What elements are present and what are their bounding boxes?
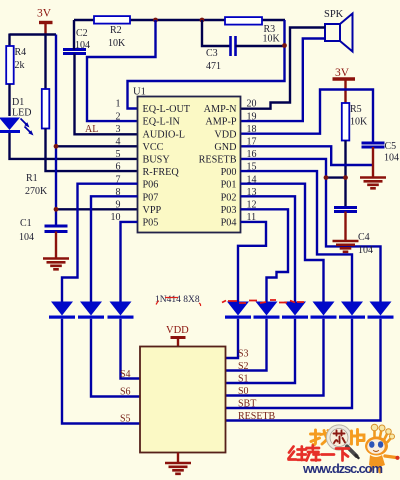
svg-text:P06: P06 bbox=[143, 180, 159, 191]
diode D4 (1N4148) bbox=[110, 302, 132, 316]
node junction VCC bbox=[54, 144, 59, 149]
svg-text:20: 20 bbox=[247, 99, 257, 110]
svg-text:P03: P03 bbox=[221, 205, 237, 216]
wire P01 pin 14 to diode D8 bbox=[241, 184, 324, 302]
svg-text:17: 17 bbox=[247, 137, 257, 148]
label C3 471 bbox=[206, 48, 221, 72]
svg-text:104: 104 bbox=[358, 245, 373, 256]
wire top rail y=20 bbox=[74, 19, 285, 21]
svg-text:R1: R1 bbox=[26, 173, 38, 184]
svg-text:VDD: VDD bbox=[166, 325, 189, 336]
svg-text:10: 10 bbox=[111, 212, 121, 223]
node junction C3 left bbox=[200, 18, 205, 23]
resistor R1 bbox=[42, 89, 50, 129]
wire R4 top lead bbox=[8, 34, 10, 47]
diode D8 (1N4148) bbox=[313, 302, 335, 316]
svg-text:SBT: SBT bbox=[238, 399, 256, 410]
svg-text:VCC: VCC bbox=[143, 142, 164, 153]
svg-text:www.dzsc.com: www.dzsc.com bbox=[302, 461, 383, 476]
svg-text:P02: P02 bbox=[221, 192, 237, 203]
wire diode D5 to S3 bbox=[226, 319, 239, 358]
label D1 LED bbox=[12, 97, 31, 119]
labels chip2 left pins S4 S6 S5 bbox=[120, 369, 131, 425]
svg-text:18: 18 bbox=[247, 124, 257, 135]
svg-text:P00: P00 bbox=[221, 167, 237, 178]
wire C3 right lead bbox=[236, 45, 285, 47]
svg-text:RESETB: RESETB bbox=[238, 411, 276, 422]
svg-text:S5: S5 bbox=[120, 414, 131, 425]
svg-text:1N414 8X8: 1N414 8X8 bbox=[155, 295, 200, 305]
svg-text:5: 5 bbox=[116, 149, 121, 160]
svg-text:VDD: VDD bbox=[214, 129, 236, 140]
wire 3V stem to R1 bbox=[44, 35, 46, 90]
label C1 104 bbox=[19, 218, 34, 243]
watermark logo dzsc (find-chip magnifier, mascot, brand) bbox=[289, 424, 400, 476]
capacitor C4 bbox=[334, 208, 357, 212]
label C4 104 bbox=[358, 232, 373, 256]
svg-text:AUDIO-L: AUDIO-L bbox=[143, 129, 185, 140]
svg-text:2: 2 bbox=[116, 111, 121, 122]
wire diode D6 to S2 bbox=[226, 319, 267, 371]
svg-text:C3: C3 bbox=[206, 48, 218, 59]
label R1 270K bbox=[25, 173, 48, 197]
svg-text:R5: R5 bbox=[350, 104, 362, 115]
wire GND pin 17 to C5 bottom bbox=[241, 146, 374, 165]
labels U1 pin numbers bbox=[111, 99, 257, 223]
svg-text:AL: AL bbox=[85, 124, 98, 135]
wire R1 to R-FREQ pin 6 bbox=[46, 129, 138, 172]
svg-text:S4: S4 bbox=[120, 369, 131, 380]
svg-text:19: 19 bbox=[247, 111, 257, 122]
ground under C4 bbox=[333, 241, 359, 252]
wire R4 to D1 bbox=[8, 84, 10, 116]
wire 3V rail top-left horizontal bbox=[10, 33, 57, 35]
wire VCC pin 4 bbox=[56, 145, 138, 147]
svg-text:SPK: SPK bbox=[324, 9, 344, 20]
svg-text:104: 104 bbox=[19, 232, 34, 243]
wire diode D10 to RESETB bbox=[226, 319, 381, 421]
wire P00 pin 15 to diode D9 bbox=[241, 171, 353, 301]
svg-text:EQ-L-OUT: EQ-L-OUT bbox=[143, 104, 191, 115]
labels chip2 right pins bbox=[238, 349, 276, 423]
wire R5 to C4 vertical bbox=[344, 141, 346, 208]
ground under C5 bbox=[360, 178, 386, 189]
svg-text:RESETB: RESETB bbox=[199, 155, 237, 166]
svg-text:S3: S3 bbox=[238, 349, 249, 360]
svg-text:C2: C2 bbox=[76, 28, 88, 39]
svg-text:471: 471 bbox=[206, 61, 221, 72]
label R3 10K bbox=[263, 24, 281, 45]
speaker SPK symbol bbox=[325, 14, 353, 52]
wire D1 cathode to BUSY pin 5 bbox=[10, 133, 138, 159]
wire P05 pin 10 to diode D4 bbox=[121, 222, 138, 302]
wire AMP-N pin 20 to SPK bbox=[241, 28, 326, 109]
wire 3V to VCC/VPP/C1 vertical bbox=[55, 35, 57, 226]
resistor R5 bbox=[342, 103, 350, 141]
wire P07 pin 8 to diode D3 bbox=[91, 196, 138, 301]
svg-text:P01: P01 bbox=[221, 180, 237, 191]
svg-text:C4: C4 bbox=[358, 232, 370, 243]
LED D1 bbox=[0, 118, 34, 136]
svg-text:R-FREQ: R-FREQ bbox=[143, 167, 180, 178]
node junction AMP-N/R3/C3 bbox=[282, 43, 287, 48]
diode D9 (1N4148) bbox=[341, 302, 363, 316]
wire C2 top lead bbox=[73, 20, 75, 50]
svg-text:9: 9 bbox=[116, 200, 121, 211]
wire diode D7 to S1 bbox=[226, 319, 296, 383]
capacitor C3 bbox=[231, 36, 236, 56]
chip U2 body bbox=[140, 347, 226, 453]
wire VDD pin 18 to 3V rail bbox=[241, 90, 374, 144]
svg-text:10K: 10K bbox=[263, 34, 281, 45]
svg-text:3: 3 bbox=[116, 124, 121, 135]
svg-text:R2: R2 bbox=[110, 25, 122, 36]
svg-text:10K: 10K bbox=[108, 38, 126, 49]
power VDD symbol (chip2) bbox=[166, 325, 189, 347]
wire R3/C3 right to EQ-L-OUT pin 1 bbox=[128, 20, 285, 109]
svg-text:S1: S1 bbox=[238, 374, 249, 385]
svg-text:3V: 3V bbox=[335, 67, 350, 79]
wire diode D3 to S6 bbox=[91, 319, 140, 397]
svg-text:P05: P05 bbox=[143, 218, 159, 229]
svg-text:S0: S0 bbox=[238, 386, 249, 397]
svg-text:LED: LED bbox=[12, 108, 31, 119]
svg-text:AMP-N: AMP-N bbox=[204, 104, 237, 115]
wire P03 pin 12 to diode D6 bbox=[241, 209, 289, 301]
label R4 2k bbox=[15, 47, 27, 71]
svg-text:104: 104 bbox=[75, 40, 90, 51]
wire P02 pin 13 to diode D7 bbox=[241, 196, 296, 301]
wire P04 pin 11 to diode D5 bbox=[238, 222, 266, 302]
diode D7 (1N4148) bbox=[284, 302, 306, 316]
wire C5 to ground bbox=[372, 147, 374, 177]
svg-text:P04: P04 bbox=[221, 218, 237, 229]
diode D2 (1N4148) bbox=[51, 302, 73, 316]
red markup strokes over diodes bbox=[222, 300, 304, 303]
svg-text:AMP-P: AMP-P bbox=[205, 117, 236, 128]
svg-text:S2: S2 bbox=[238, 361, 249, 372]
wire AMP-P pin 19 to SPK bbox=[241, 39, 326, 122]
wire VPP pin 9 bbox=[56, 208, 138, 210]
diode D6 (1N4148) bbox=[256, 302, 278, 316]
svg-text:2k: 2k bbox=[15, 60, 25, 71]
wire C1 to ground bbox=[55, 232, 57, 259]
svg-text:U1: U1 bbox=[133, 87, 146, 98]
resistor R4 bbox=[6, 46, 14, 84]
capacitor C2 bbox=[63, 50, 86, 54]
wire diode D2 to S5 bbox=[62, 319, 140, 424]
svg-text:6: 6 bbox=[116, 162, 121, 173]
label C5 104 bbox=[384, 141, 399, 164]
wire chip2 ground stem bbox=[177, 453, 179, 463]
svg-text:BUSY: BUSY bbox=[143, 155, 171, 166]
svg-text:S6: S6 bbox=[120, 387, 131, 398]
wire R2 right to EQ-L-IN pin 2 bbox=[87, 20, 156, 121]
label 1N4148X8 bbox=[155, 295, 201, 306]
capacitor C1 bbox=[45, 226, 68, 232]
power 3V (left) symbol and label bbox=[37, 8, 53, 36]
node junction VPP bbox=[54, 207, 59, 212]
wire P06 pin 7 to diode D2 bbox=[62, 184, 138, 302]
wire diode D4 to S4 bbox=[121, 319, 141, 379]
capacitor C5 bbox=[362, 143, 385, 147]
resistor R3 bbox=[225, 17, 262, 25]
svg-text:EQ-L-IN: EQ-L-IN bbox=[143, 117, 181, 128]
wire diode D8 to S0 bbox=[226, 319, 324, 396]
svg-text:3V: 3V bbox=[37, 8, 52, 20]
ground under chip2 bbox=[165, 463, 191, 474]
diode D3 (1N4148) bbox=[80, 302, 102, 316]
svg-text:10K: 10K bbox=[350, 117, 368, 128]
svg-text:1: 1 bbox=[116, 99, 121, 110]
node junction R2 right bbox=[153, 18, 158, 23]
wire diode D9 to SBT bbox=[226, 319, 353, 408]
label C2 104 bbox=[75, 28, 90, 51]
svg-text:D1: D1 bbox=[12, 97, 24, 108]
label R5 10K bbox=[350, 104, 368, 128]
svg-text:16: 16 bbox=[247, 149, 257, 160]
wire C2 to AUDIO-L pin 3 (net AL) bbox=[75, 54, 138, 135]
label R2 10K bbox=[108, 25, 126, 49]
svg-text:270K: 270K bbox=[25, 186, 48, 197]
svg-text:4: 4 bbox=[116, 137, 121, 148]
diode D5 (1N4148) bbox=[227, 302, 249, 316]
power 3V (right) symbol and label bbox=[333, 67, 356, 103]
wire RESETB link to R5/C4 bbox=[326, 176, 346, 178]
ground under C1 bbox=[43, 259, 69, 270]
node junction RESETB link right bbox=[343, 175, 348, 180]
node junction RESETB link left bbox=[324, 175, 329, 180]
labels U1 pin names bbox=[143, 104, 238, 228]
svg-text:104: 104 bbox=[384, 153, 399, 164]
svg-text:P07: P07 bbox=[143, 192, 159, 203]
svg-text:GND: GND bbox=[214, 142, 236, 153]
wire C4 to ground bbox=[344, 212, 346, 241]
op-chip U1 body bbox=[138, 97, 241, 233]
svg-text:VPP: VPP bbox=[143, 205, 162, 216]
wire RESETB pin 16 drop bbox=[241, 159, 381, 302]
diode D10 (1N4148) bbox=[370, 302, 392, 316]
wire C3 left lead bbox=[202, 20, 231, 46]
svg-text:C5: C5 bbox=[385, 141, 397, 152]
svg-text:C1: C1 bbox=[20, 218, 32, 229]
svg-text:R4: R4 bbox=[15, 47, 27, 58]
resistor R2 bbox=[94, 16, 130, 24]
